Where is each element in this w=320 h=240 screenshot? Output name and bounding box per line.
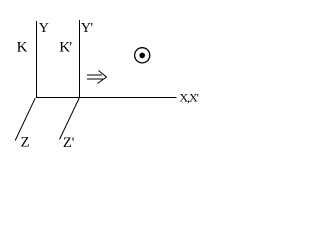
svg-text:K': K' (59, 40, 72, 56)
Y axis of frame K (36, 21, 38, 98)
X,X' axis (36, 97, 177, 99)
svg-text:Y: Y (39, 21, 49, 36)
Z' axis of frame K' (60, 98, 80, 140)
Z axis of frame K (15, 98, 35, 140)
field out-of-page symbol: dot (139, 53, 145, 59)
velocity double arrow (87, 71, 107, 84)
field out-of-page symbol: circle (135, 48, 150, 63)
svg-text:K: K (17, 40, 28, 56)
Y' axis of frame K' (79, 20, 81, 98)
svg-text:Y': Y' (81, 21, 93, 36)
svg-text:Z': Z' (63, 135, 74, 151)
svg-text:Z: Z (21, 135, 30, 151)
svg-text:X,X': X,X' (179, 90, 198, 104)
